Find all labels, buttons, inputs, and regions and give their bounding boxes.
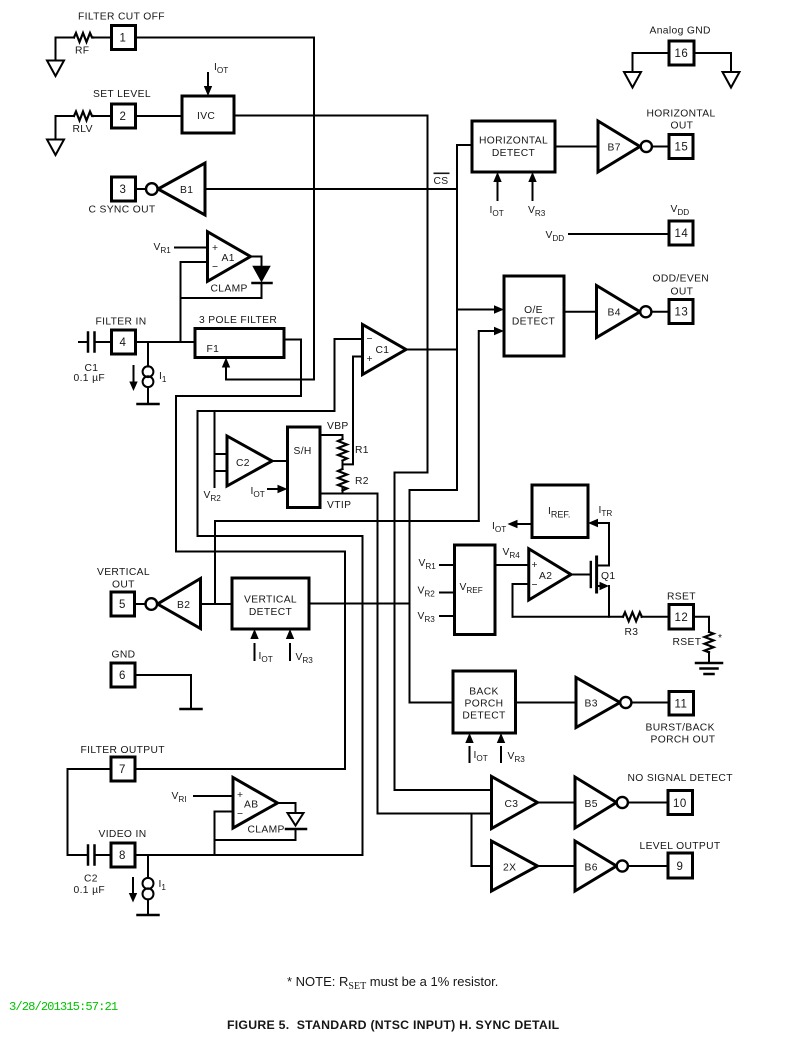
svg-text:CLAMP: CLAMP <box>248 825 285 836</box>
svg-text:*: * <box>718 633 722 644</box>
svg-text:B2: B2 <box>177 600 190 611</box>
op-amp AB <box>233 778 278 829</box>
wire CS to O/E detect input 1 <box>457 309 495 311</box>
diode D2 cathode bar <box>286 828 306 831</box>
wire VREF output VR4 to A2 plus <box>495 564 529 566</box>
capacitor C2 plates <box>88 846 95 865</box>
svg-text:BACK: BACK <box>469 687 498 698</box>
wire I1 to ground bar <box>147 387 149 404</box>
op-amp A2 <box>529 549 571 600</box>
wire VDD to pin14 <box>569 233 669 235</box>
svg-text:FILTER OUTPUT: FILTER OUTPUT <box>81 745 166 756</box>
svg-text:A2: A2 <box>539 571 552 582</box>
svg-text:C2: C2 <box>236 458 250 469</box>
diode D2 open triangle <box>288 813 304 826</box>
wire pin12 to RSET resistor <box>694 617 710 632</box>
block VERTICAL DETECT <box>232 578 309 629</box>
svg-text:DETECT: DETECT <box>512 317 556 328</box>
wire HD IOT arrow shaft <box>497 182 499 200</box>
wire VREF VR3 stub <box>440 615 455 617</box>
svg-text:DETECT: DETECT <box>492 148 536 159</box>
arrowhead VD IOT <box>250 629 258 639</box>
svg-text:B1: B1 <box>180 185 193 196</box>
wire R3 to pin12 <box>642 616 670 618</box>
wire VRI to AB plus <box>194 795 233 797</box>
pin 6 <box>111 663 135 687</box>
svg-text:AB: AB <box>244 800 258 811</box>
svg-text:14: 14 <box>675 228 689 240</box>
wire B5 bubble to pin10 <box>628 802 668 804</box>
wire AB output to diode <box>278 803 296 813</box>
wire VTIP from S/H: right, down, right to C3 lower input <box>320 494 492 814</box>
svg-text:F1: F1 <box>207 344 220 355</box>
pin 3 <box>112 177 136 201</box>
wire C1 to pin4 <box>96 341 112 343</box>
svg-text:B6: B6 <box>585 863 598 874</box>
svg-text:3: 3 <box>120 184 127 196</box>
bubble B4 <box>640 306 651 317</box>
wire VBP from S/H to R1 <box>320 435 343 439</box>
comparator C1 <box>363 325 407 375</box>
resistor R3 <box>623 612 642 621</box>
wire AB clamp bottom <box>215 830 296 841</box>
wire pin16 left lead to ground <box>633 53 670 72</box>
svg-text:B7: B7 <box>608 143 621 154</box>
wire IOT arrow shaft into S/H <box>268 488 279 490</box>
pin 15 <box>669 135 693 159</box>
wire B2 to vertical detect <box>201 603 233 605</box>
block IVC <box>182 96 234 133</box>
svg-text:PORCH OUT: PORCH OUT <box>651 735 716 746</box>
pin 2 <box>112 104 136 128</box>
svg-text:LEVEL OUTPUT: LEVEL OUTPUT <box>640 841 721 852</box>
svg-text:SET LEVEL: SET LEVEL <box>93 89 151 100</box>
wire BPD output to B3 <box>516 702 577 704</box>
svg-text:RLV: RLV <box>73 124 93 135</box>
wire pin5 to bubble B2 <box>135 603 146 605</box>
resistor RSET <box>705 632 714 652</box>
svg-text:PORCH: PORCH <box>465 699 504 710</box>
wire C2 top input stub <box>215 453 228 455</box>
pin 14 <box>669 221 693 245</box>
svg-text:DETECT: DETECT <box>462 711 506 722</box>
wire BPD IOT arrow shaft <box>469 747 471 762</box>
block IREF <box>532 485 588 538</box>
wire A1 output to diode anode <box>251 257 262 267</box>
arrowhead IREF IOT left <box>508 520 518 528</box>
block VREF <box>455 545 496 635</box>
wire pin1 left lead <box>56 37 75 39</box>
svg-text:+: + <box>367 354 373 365</box>
comparator C2 <box>227 436 272 486</box>
svg-text:OUT: OUT <box>671 287 694 298</box>
wire Q1 source to R3 line <box>608 586 610 617</box>
block F1 3-pole filter <box>195 329 284 358</box>
wire BPD VR3 arrow shaft <box>500 747 502 762</box>
svg-text:IVC: IVC <box>197 111 215 122</box>
wire RLV to pin2 <box>93 115 112 117</box>
svg-text:−: − <box>367 334 373 345</box>
svg-text:B4: B4 <box>608 308 621 319</box>
svg-text:1: 1 <box>120 33 127 45</box>
wire R2 to VTIP line <box>342 488 344 494</box>
arrowhead O/E input1 <box>494 305 504 313</box>
ground bar I1b <box>138 914 159 917</box>
wire video signal to C1 minus: up,left,up,right,into C1 <box>198 339 363 855</box>
svg-text:−: − <box>212 262 218 273</box>
svg-text:+: + <box>532 560 538 571</box>
pin 9 <box>668 853 693 878</box>
wire pin7 left lead down to video line <box>68 769 112 855</box>
block S/H <box>288 427 321 508</box>
inverter B1 <box>158 163 205 215</box>
svg-text:+: + <box>237 790 243 801</box>
svg-text:C SYNC OUT: C SYNC OUT <box>89 205 156 216</box>
wire RSET to ground <box>708 652 710 663</box>
svg-text:3/28/201315:57:21: 3/28/201315:57:21 <box>9 1000 118 1014</box>
svg-text:OUT: OUT <box>671 121 694 132</box>
wire O/E output to B4 <box>564 311 597 313</box>
capacitor C1 plates <box>88 333 95 352</box>
wire C1 output to CS vertical <box>406 349 457 351</box>
svg-text:ODD/EVEN: ODD/EVEN <box>653 274 710 285</box>
arrowhead I1b down <box>129 893 137 903</box>
svg-text:A1: A1 <box>222 253 235 264</box>
bubble B3 <box>620 697 631 708</box>
arrowhead BPD IOT <box>465 733 473 743</box>
wire C2 output to S/H <box>272 460 288 462</box>
svg-text:FIGURE 5. STANDARD (NTSC INPU: FIGURE 5. STANDARD (NTSC INPUT) H. SYNC … <box>227 1018 560 1032</box>
wire B1 input from CS vertical <box>205 188 457 190</box>
current source I1b circles <box>143 878 154 889</box>
inverter B4 <box>597 286 641 338</box>
svg-text:S/H: S/H <box>294 446 312 457</box>
wire Q1 drain up to ITR <box>597 523 609 566</box>
arrowhead IOT into IVC <box>204 86 212 96</box>
svg-text:HORIZONTAL: HORIZONTAL <box>479 136 548 147</box>
resistor R1 <box>338 439 347 461</box>
inverter B5 <box>575 777 617 828</box>
wire I1b to ground bar <box>147 899 149 915</box>
wire pin2 to IVC <box>136 115 183 117</box>
inverter B7 <box>598 121 640 172</box>
ground triangle pin16 right <box>723 72 740 88</box>
inverter B2 <box>158 579 201 629</box>
op-amp A1 <box>208 232 251 282</box>
overline CS <box>434 173 450 175</box>
wire B4 bubble to pin13 <box>652 311 670 313</box>
transistor Q1 channel bar <box>595 557 598 592</box>
block HORIZONTAL DETECT <box>472 121 555 172</box>
arrowhead I1 down <box>129 382 137 392</box>
wire VREF VR2 stub <box>440 592 455 594</box>
svg-text:4: 4 <box>120 337 127 349</box>
svg-text:R3: R3 <box>625 627 639 638</box>
svg-text:10: 10 <box>673 798 687 810</box>
wire pin2 ground drop <box>55 116 57 140</box>
wire C1 plus from R1/R2 junction <box>343 357 363 465</box>
wire current source I1b drop <box>147 855 149 878</box>
pin 13 <box>669 300 693 324</box>
wire C2 bottom input stub <box>215 470 228 472</box>
resistor RF <box>74 33 93 42</box>
pin 16 <box>669 41 694 65</box>
pin 12 <box>669 605 694 630</box>
ground triangle pin16 left <box>624 72 641 88</box>
wire 2X output to B6 <box>538 865 576 867</box>
wire B3 bubble to pin11 <box>632 702 670 704</box>
svg-text:HORIZONTAL: HORIZONTAL <box>647 109 716 120</box>
svg-text:9: 9 <box>677 861 684 873</box>
wire C2 input verticals <box>214 411 216 487</box>
svg-text:6: 6 <box>119 670 126 682</box>
svg-text:B3: B3 <box>585 699 598 710</box>
inverter B3 <box>576 678 620 728</box>
svg-text:11: 11 <box>675 699 688 711</box>
arrowhead HD IOT <box>493 172 501 182</box>
wire AB minus stub down to video line <box>215 812 234 856</box>
wire pin8 to video node <box>135 854 363 856</box>
wire pin2 left lead <box>56 115 75 117</box>
wire VR1 to A1 plus <box>175 247 208 249</box>
pin 4 <box>112 330 136 354</box>
svg-text:+: + <box>212 243 218 254</box>
svg-text:RF: RF <box>75 46 89 57</box>
svg-text:2X: 2X <box>503 863 516 874</box>
wire y521 horizontal to B2/VD line <box>215 521 479 604</box>
wire pin1 ground drop <box>55 38 57 61</box>
bubble B1 <box>146 183 158 195</box>
wire filter-in left lead <box>79 341 87 343</box>
diode D1 filled <box>254 267 270 282</box>
svg-text:15: 15 <box>675 142 689 154</box>
svg-text:BURST/BACK: BURST/BACK <box>646 723 715 734</box>
svg-text:2: 2 <box>120 111 127 123</box>
svg-text:NO SIGNAL DETECT: NO SIGNAL DETECT <box>628 773 734 784</box>
pin 10 <box>668 791 693 815</box>
wire C2 to pin8 <box>96 854 112 856</box>
svg-text:DETECT: DETECT <box>249 607 293 618</box>
svg-text:C3: C3 <box>505 799 519 810</box>
amp 2X <box>492 841 538 891</box>
comparator C3 <box>492 777 538 829</box>
pin 7 <box>111 757 135 781</box>
svg-text:CLAMP: CLAMP <box>211 284 248 295</box>
wire B6 bubble to pin9 <box>628 865 668 867</box>
wire B7 bubble to pin15 <box>653 146 670 148</box>
wire video-in left lead <box>68 854 87 856</box>
arrowhead VD VR3 <box>286 629 294 639</box>
wire F1 output tap: right,down,left,down,right,down to pin7 line <box>136 340 346 770</box>
svg-text:Q1: Q1 <box>601 571 615 582</box>
wire pin6 to ground <box>135 675 191 709</box>
ground bar I1 <box>138 403 159 406</box>
svg-text:VTIP: VTIP <box>327 500 351 511</box>
wire RF to pin1 <box>93 37 112 39</box>
arrowhead SH IOT <box>278 485 288 493</box>
arrow I1 shaft <box>133 366 135 383</box>
svg-text:RSET: RSET <box>673 637 702 648</box>
svg-text:0.1 µF: 0.1 µF <box>74 885 106 896</box>
arrowhead HD VR3 <box>528 172 536 182</box>
resistor RLV <box>74 112 93 121</box>
current source I1 circles <box>143 366 154 377</box>
block O/E DETECT <box>504 276 564 356</box>
svg-text:GND: GND <box>112 650 136 661</box>
pin 8 <box>111 843 135 867</box>
block BACK PORCH DETECT <box>453 671 516 733</box>
svg-text:C2: C2 <box>84 874 98 885</box>
bubble B6 <box>617 860 628 871</box>
ground symbol RSET <box>696 663 722 674</box>
transistor Q1 gate bar <box>590 562 592 587</box>
svg-text:16: 16 <box>675 48 689 60</box>
bubble B2 <box>146 598 158 610</box>
arrowhead BPD VR3 <box>497 733 505 743</box>
wire VREF VR1 stub <box>440 564 455 566</box>
svg-text:7: 7 <box>119 764 126 776</box>
svg-text:12: 12 <box>675 612 689 624</box>
svg-text:0.1 µF: 0.1 µF <box>74 373 106 384</box>
wire pin16 right lead to ground <box>694 53 731 72</box>
bubble B5 <box>617 797 628 808</box>
pin 5 <box>111 592 135 616</box>
svg-text:B5: B5 <box>585 799 598 810</box>
svg-text:VERTICAL: VERTICAL <box>97 567 150 578</box>
svg-text:R2: R2 <box>355 476 369 487</box>
svg-text:3 POLE FILTER: 3 POLE FILTER <box>199 315 277 326</box>
wire VD VR3 arrow shaft <box>289 644 291 660</box>
arrowhead ITR into IREF <box>588 519 598 527</box>
wire A2 output to Q1 gate <box>571 574 590 576</box>
svg-text:CS: CS <box>434 176 449 187</box>
svg-text:−: − <box>532 580 538 591</box>
svg-text:RSET: RSET <box>667 592 696 603</box>
wire VD output to BPD vertical <box>309 603 410 605</box>
wire pin1 to F1 control: right, down, left, arrow up into F1 <box>136 38 315 380</box>
arrow I1b shaft <box>132 878 134 895</box>
ground triangle pin2 <box>47 140 64 156</box>
wire clamp bottom A1 <box>181 284 262 298</box>
wire IREF IOT arrow shaft <box>517 523 532 525</box>
svg-text:OUT: OUT <box>112 580 135 591</box>
wire HD VR3 arrow shaft <box>532 182 534 200</box>
pin 1 <box>112 26 136 50</box>
wire pin4 to F1 input <box>136 341 196 343</box>
svg-text:FILTER IN: FILTER IN <box>96 317 147 328</box>
wire A1 minus stub and clamp left vertical <box>181 262 208 342</box>
wire VD IOT arrow shaft <box>254 644 256 660</box>
wire R1 to R2 <box>342 461 344 470</box>
svg-text:R1: R1 <box>355 445 369 456</box>
svg-text:5: 5 <box>119 599 126 611</box>
wire Q1 source <box>597 585 601 587</box>
svg-text:FILTER CUT OFF: FILTER CUT OFF <box>78 12 165 23</box>
ground bar pin6 <box>181 708 202 711</box>
svg-text:VIDEO IN: VIDEO IN <box>99 829 147 840</box>
wire IOT arrow shaft into IVC top <box>207 73 209 87</box>
pin 11 <box>669 692 694 716</box>
ground triangle pin1 <box>47 61 64 77</box>
wire IVC output to C3 upper input: right, down, jog left, down, right <box>234 116 492 791</box>
wire A2 minus feedback: stub, down to R3 line <box>513 584 529 617</box>
svg-text:VBP: VBP <box>327 421 349 432</box>
svg-text:8: 8 <box>119 850 126 862</box>
arrowhead O/E input2 <box>494 327 504 335</box>
diode D1 cathode bar <box>253 282 272 285</box>
wire pin3 to bubble B1 <box>136 188 147 190</box>
svg-text:C1: C1 <box>376 345 390 356</box>
wire CS vertical: HD input top, down, left, down, right to BPD input <box>410 145 473 703</box>
svg-text:Analog GND: Analog GND <box>650 26 711 37</box>
wire current source I1 drop <box>147 342 149 367</box>
svg-text:VERTICAL: VERTICAL <box>244 595 297 606</box>
svg-text:−: − <box>237 809 243 820</box>
wire C3 output to B5 <box>538 802 576 804</box>
arrowhead F1 control <box>222 358 230 368</box>
wire R3 line from feedback to resistor <box>513 616 624 618</box>
wire O/E input 2 from vertical detect line: up from y521 <box>479 331 495 521</box>
bubble B7 <box>641 141 652 152</box>
inverter B6 <box>575 841 617 891</box>
svg-text:O/E: O/E <box>524 305 543 316</box>
svg-text:13: 13 <box>675 307 689 319</box>
wire HD output to B7 <box>555 146 598 148</box>
wire branch to 2X input <box>472 814 492 867</box>
arrowhead Q1 source <box>600 582 610 590</box>
resistor R2 <box>338 469 347 491</box>
